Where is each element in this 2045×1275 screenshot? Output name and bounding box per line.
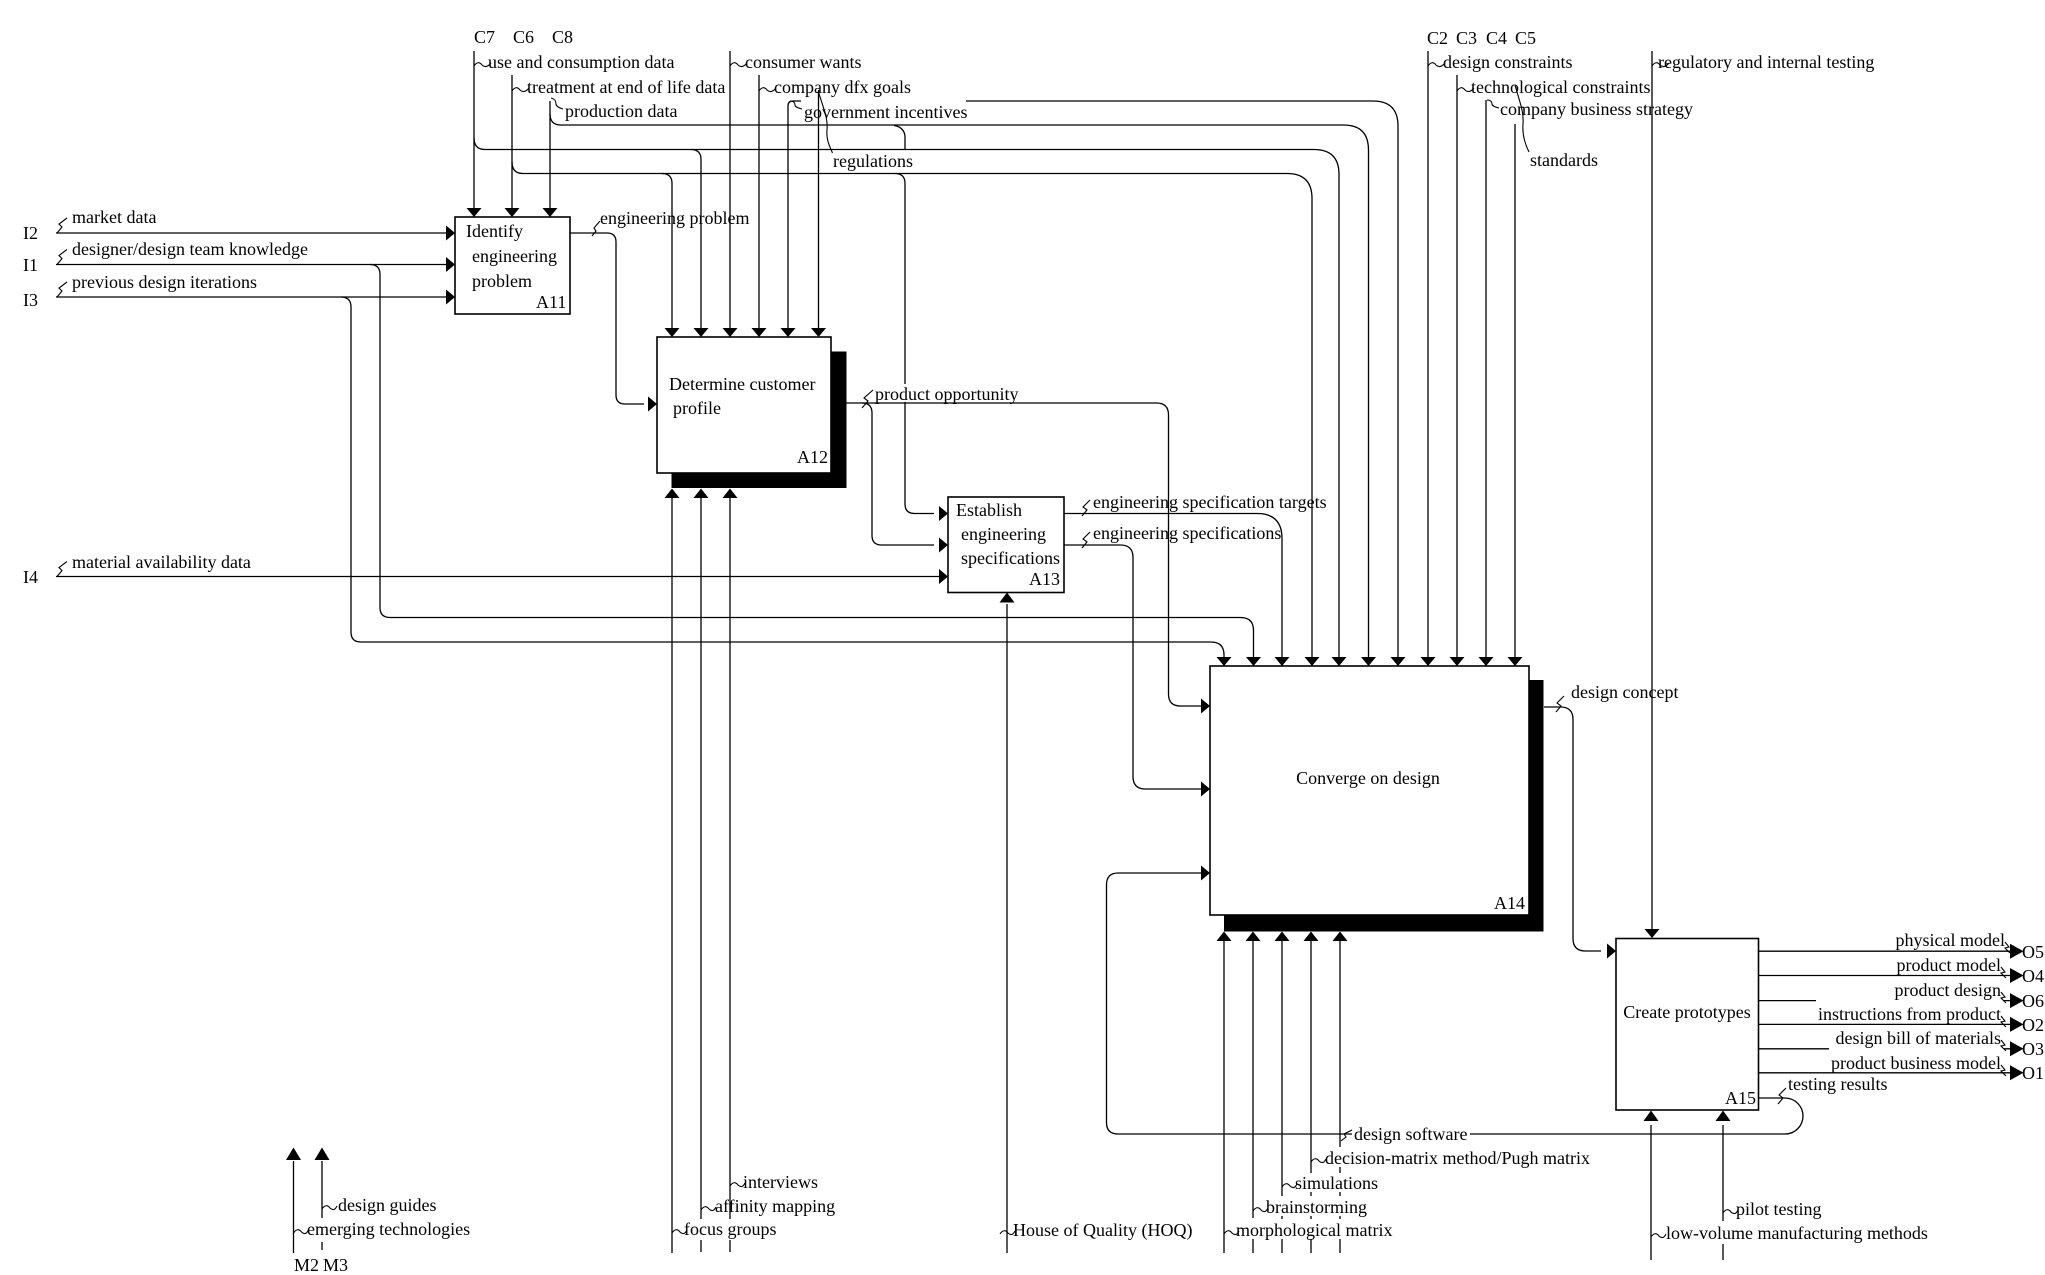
- wire C4 company business strategy to A14 top #10: [1479, 100, 1494, 666]
- svg-text:A13: A13: [1029, 569, 1060, 589]
- svg-text:engineering: engineering: [472, 246, 557, 266]
- wire C2 design constraints to A14 top #8: [1421, 51, 1436, 666]
- box A13 Establish engineering specifications: [948, 497, 1064, 593]
- box A14 shadow: [1224, 680, 1544, 932]
- wire O6 product design output: [1759, 993, 2024, 1008]
- svg-text:A11: A11: [536, 292, 566, 312]
- label simulations: [1282, 1173, 1378, 1193]
- svg-text:design guides: design guides: [338, 1195, 437, 1215]
- label product business model: [1831, 1053, 2006, 1076]
- wire C8 control into A11: [543, 101, 558, 217]
- wire design concept from A14 to A15 left: [1544, 707, 1616, 959]
- wire I2 market data into A11: [56, 226, 455, 241]
- svg-text:company business strategy: company business strategy: [1500, 99, 1693, 119]
- svg-text:Determine customer: Determine customer: [669, 374, 815, 394]
- svg-text:standards: standards: [1530, 150, 1598, 170]
- label physical model: [1896, 930, 2010, 953]
- svg-text:use and consumption data: use and consumption data: [488, 52, 674, 72]
- wire A14 mechanism morphological matrix vertical: [1217, 932, 1232, 1254]
- wire testing results feedback loop from A15 to A14 left #3: [1107, 866, 1804, 1135]
- wire A14 mechanism decision-matrix vertical: [1304, 932, 1319, 1254]
- svg-text:A12: A12: [797, 447, 828, 467]
- svg-text:design concept: design concept: [1571, 682, 1678, 702]
- label engineering specifications: [1082, 523, 1281, 548]
- svg-text:O4: O4: [2022, 966, 2044, 986]
- svg-text:decision-matrix method/Pugh ma: decision-matrix method/Pugh matrix: [1325, 1148, 1590, 1168]
- svg-text:I4: I4: [23, 567, 38, 587]
- label design bill of materials: [1836, 1028, 2006, 1051]
- wire C6 control into A11: [505, 75, 520, 217]
- svg-text:emerging technologies: emerging technologies: [307, 1219, 470, 1239]
- label use and consumption data: [474, 52, 674, 72]
- wire O3 design bill of materials output: [1759, 1041, 2024, 1056]
- label emerging technologies: [294, 1219, 471, 1239]
- svg-text:testing results: testing results: [1788, 1074, 1888, 1094]
- svg-text:profile: profile: [673, 398, 721, 418]
- svg-text:M3: M3: [323, 1255, 348, 1275]
- svg-text:design bill of materials: design bill of materials: [1836, 1028, 2001, 1048]
- svg-text:engineering problem: engineering problem: [600, 208, 749, 228]
- svg-text:Identify: Identify: [466, 221, 523, 241]
- label brainstorming: [1253, 1197, 1367, 1217]
- wire government incentives horizontal to A14 top #7: [966, 101, 1406, 666]
- label engineering problem: [592, 208, 749, 236]
- svg-text:design software: design software: [1354, 1124, 1467, 1144]
- svg-text:market data: market data: [72, 207, 156, 227]
- wire A12 mechanism affinity mapping vertical: [694, 489, 709, 1253]
- svg-text:A14: A14: [1494, 893, 1525, 913]
- svg-text:product model: product model: [1897, 955, 2001, 975]
- label standards with long squiggle: [1515, 85, 1598, 170]
- label design constraints: [1428, 52, 1572, 72]
- svg-text:physical model: physical model: [1896, 930, 2005, 950]
- wire A14 mechanism brainstorming vertical: [1246, 932, 1261, 1254]
- label treatment at end of life data: [512, 77, 725, 97]
- svg-text:affinity mapping: affinity mapping: [715, 1196, 835, 1216]
- wire A15 mechanism pilot testing vertical: [1716, 1111, 1731, 1261]
- wire production data horizontal to A14 top #6: [561, 125, 1376, 666]
- wire M3 mechanism arrow: [315, 1148, 330, 1251]
- label government incentives: [790, 101, 967, 122]
- label consumer wants: [730, 52, 861, 72]
- svg-text:government incentives: government incentives: [804, 102, 967, 122]
- svg-text:engineering: engineering: [961, 524, 1046, 544]
- label technological constraints: [1457, 77, 1650, 97]
- svg-text:O3: O3: [2022, 1039, 2044, 1059]
- label production data: [551, 98, 677, 121]
- label focus groups: [672, 1219, 777, 1239]
- svg-text:A15: A15: [1725, 1088, 1756, 1108]
- wire C7 fork to horizontal use-and-consumption run: [474, 138, 485, 150]
- label company dfx goals: [759, 77, 911, 97]
- label design concept: [1556, 682, 1678, 712]
- wire I1 designer knowledge into A11: [56, 257, 455, 272]
- label House of Quality (HOQ): [1000, 1220, 1192, 1241]
- label morphological matrix: [1224, 1220, 1392, 1240]
- wire O2 instructions from product output: [1759, 1017, 2024, 1032]
- label interviews: [730, 1172, 818, 1192]
- label product design: [1895, 980, 2006, 1003]
- svg-text:technological constraints: technological constraints: [1471, 77, 1650, 97]
- box A12 Determine customer profile: [657, 337, 831, 473]
- label material availability data: [57, 552, 251, 577]
- svg-text:C8: C8: [552, 27, 573, 47]
- wire engineering specifications from A13 to A14 left #2: [1064, 545, 1210, 797]
- svg-text:product opportunity: product opportunity: [875, 384, 1018, 404]
- svg-text:focus groups: focus groups: [684, 1219, 777, 1239]
- wire branch treatment down to A13 input #1: [895, 174, 948, 522]
- svg-text:product business model: product business model: [1831, 1053, 2001, 1073]
- label previous design iterations: [57, 272, 257, 297]
- svg-text:C5: C5: [1515, 28, 1536, 48]
- box A11 Identify engineering problem: [455, 217, 570, 314]
- wire A12 mechanism focus groups vertical: [665, 489, 680, 1254]
- label company business strategy: [1487, 99, 1693, 119]
- label testing results: [1778, 1074, 1888, 1104]
- svg-text:O1: O1: [2022, 1063, 2044, 1083]
- svg-text:I1: I1: [23, 255, 38, 275]
- wire O4 product model output: [1759, 968, 2024, 983]
- svg-text:consumer wants: consumer wants: [745, 52, 861, 72]
- label low-volume manufacturing methods: [1651, 1223, 1928, 1243]
- wire product opportunity branch down to A13 input #2: [862, 403, 948, 553]
- wire O1 product business model output: [1759, 1065, 2024, 1080]
- wire I3 branch down and right to A14 top #1: [341, 297, 1232, 666]
- svg-text:instructions from product: instructions from product: [1818, 1004, 2001, 1024]
- svg-text:regulatory and internal testin: regulatory and internal testing: [1658, 52, 1874, 72]
- label product model: [1897, 955, 2006, 978]
- svg-text:I3: I3: [23, 290, 38, 310]
- wire production join down into use-and-consumption run: [894, 126, 905, 150]
- svg-text:engineering specification targ: engineering specification targets: [1093, 492, 1327, 512]
- wire A12 mechanism interviews vertical: [723, 489, 738, 1253]
- svg-text:simulations: simulations: [1295, 1173, 1378, 1193]
- svg-text:Converge on design: Converge on design: [1296, 768, 1440, 788]
- svg-text:C4: C4: [1486, 28, 1507, 48]
- svg-text:designer/design team knowledge: designer/design team knowledge: [72, 239, 308, 259]
- svg-text:material availability data: material availability data: [72, 552, 251, 572]
- wire A14 mechanism design software vertical: [1333, 932, 1348, 1254]
- wire A11 output engineering problem into A12 left: [570, 233, 657, 412]
- wire C7 control into A11: [467, 51, 482, 217]
- svg-text:product design: product design: [1895, 980, 2001, 1000]
- label market data: [57, 207, 156, 233]
- wire branch treatment down to A12 top #1: [662, 174, 680, 338]
- wire C6 fork to treatment run: [512, 162, 523, 174]
- svg-text:O5: O5: [2022, 942, 2044, 962]
- svg-text:specifications: specifications: [961, 548, 1060, 568]
- wire product opportunity from A12 to A14 left #1: [847, 403, 1211, 714]
- label instructions from product: [1818, 1004, 2006, 1027]
- box A15 Create prototypes: [1616, 939, 1759, 1111]
- svg-text:pilot testing: pilot testing: [1736, 1199, 1822, 1219]
- svg-text:I2: I2: [23, 223, 38, 243]
- wire branch use-and-consumption down to A12 top #2: [691, 150, 709, 338]
- wire C8 fork to production run: [550, 114, 561, 125]
- svg-text:O2: O2: [2022, 1015, 2044, 1035]
- svg-text:brainstorming: brainstorming: [1266, 1197, 1367, 1217]
- svg-text:interviews: interviews: [743, 1172, 818, 1192]
- box A12 shadow: [672, 352, 847, 489]
- wire I1 branch down and right to A14 top #2: [370, 265, 1261, 667]
- wire regulatory and internal testing to A15 top: [1645, 51, 1660, 938]
- label regulations with long squiggle: [819, 92, 913, 171]
- label affinity mapping: [701, 1196, 835, 1216]
- svg-text:treatment at end of life data: treatment at end of life data: [527, 77, 725, 97]
- svg-text:C3: C3: [1456, 28, 1477, 48]
- wire regulations vertical to A12 top #6: [811, 90, 826, 337]
- wire M2 mechanism arrow: [286, 1148, 301, 1254]
- wire C5 standards to A14 top #11: [1508, 124, 1523, 666]
- svg-text:Create prototypes: Create prototypes: [1623, 1002, 1750, 1022]
- wire I3 previous design iterations into A11: [56, 290, 455, 305]
- label product opportunity: [862, 384, 1020, 408]
- wire treatment-at-end-of-life horizontal to A14 top #4: [523, 174, 1320, 667]
- svg-text:O6: O6: [2022, 991, 2044, 1011]
- wire A13 mechanism House of Quality vertical: [1000, 593, 1015, 1254]
- svg-text:low-volume manufacturing metho: low-volume manufacturing methods: [1666, 1223, 1928, 1243]
- svg-text:C6: C6: [513, 27, 534, 47]
- wire A15 mechanism low-volume vertical: [1644, 1111, 1659, 1261]
- svg-text:Establish: Establish: [956, 500, 1022, 520]
- svg-text:company dfx goals: company dfx goals: [774, 77, 911, 97]
- label decision-matrix method/Pugh matrix: [1311, 1148, 1590, 1168]
- wire government incentives corner and vertical to A12 top #5: [781, 101, 802, 337]
- svg-text:regulations: regulations: [833, 151, 913, 171]
- label designer/design team knowledge: [57, 239, 308, 265]
- wire I4 material availability data into A13 input #3: [56, 569, 948, 584]
- label pilot testing: [1723, 1199, 1822, 1219]
- svg-text:C7: C7: [474, 27, 495, 47]
- wire engineering specification targets from A13 to A14 top #3: [1064, 514, 1290, 667]
- label design guides: [322, 1195, 437, 1215]
- wire company dfx goals vertical to A12 top #4: [752, 75, 767, 337]
- svg-text:previous design iterations: previous design iterations: [72, 272, 257, 292]
- label design software with masking background: [1341, 1122, 1470, 1144]
- box A14 Converge on design: [1210, 666, 1529, 915]
- svg-text:morphological matrix: morphological matrix: [1236, 1220, 1392, 1240]
- wire use and consumption data horizontal to A14 top #5: [485, 150, 1347, 667]
- label engineering specification targets: [1082, 492, 1327, 516]
- label regulatory and internal testing: [1652, 52, 1874, 72]
- wire O5 physical model output: [1759, 944, 2024, 959]
- wire consumer wants vertical to A12 top #3: [723, 51, 738, 337]
- wire C3 technological constraints to A14 top #9: [1450, 75, 1465, 666]
- svg-text:C2: C2: [1427, 28, 1448, 48]
- svg-text:M2: M2: [294, 1255, 319, 1275]
- wire A14 mechanism simulations vertical: [1275, 932, 1290, 1254]
- svg-text:problem: problem: [472, 271, 532, 291]
- svg-text:design constraints: design constraints: [1443, 52, 1572, 72]
- svg-text:House of Quality (HOQ): House of Quality (HOQ): [1013, 1220, 1192, 1241]
- svg-text:engineering specifications: engineering specifications: [1093, 523, 1281, 543]
- svg-text:production data: production data: [565, 101, 677, 121]
